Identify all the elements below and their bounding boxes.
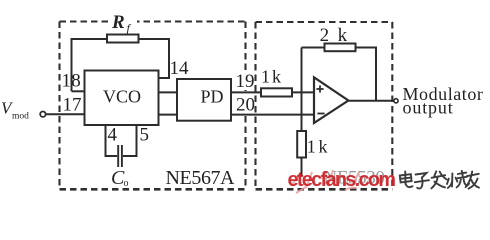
svg-text:17: 17 [63,95,82,116]
svg-text:k: k [319,137,328,157]
svg-text:1: 1 [62,71,72,92]
svg-text:2: 2 [320,25,330,46]
svg-text:19: 19 [236,71,255,92]
svg-text:k: k [338,25,348,46]
svg-text:output: output [403,97,454,117]
svg-text:etecfans.com: etecfans.com [288,169,396,191]
svg-text:14: 14 [170,58,190,79]
svg-text:5: 5 [140,125,150,146]
svg-text:mod: mod [12,112,29,122]
svg-text:4: 4 [108,125,118,146]
svg-text:NE567A: NE567A [166,167,236,189]
svg-text:o: o [124,178,129,189]
svg-text:1: 1 [307,137,316,157]
svg-text:20: 20 [236,95,255,116]
svg-text:1: 1 [261,66,270,86]
svg-text:PD: PD [201,87,224,107]
svg-text:R: R [111,12,125,33]
svg-text:k: k [272,66,281,86]
svg-text:8: 8 [71,71,81,92]
svg-text:VCO: VCO [103,87,141,107]
